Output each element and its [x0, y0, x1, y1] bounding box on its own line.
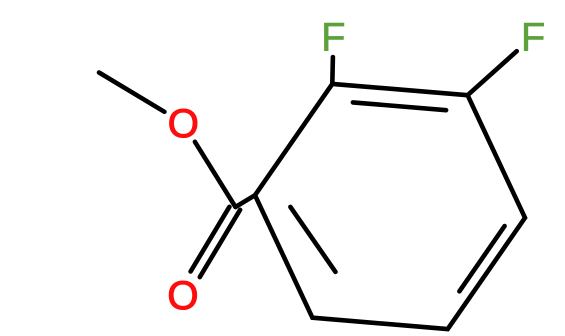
- svg-text:F: F: [521, 16, 545, 60]
- svg-text:F: F: [321, 16, 345, 60]
- svg-text:O: O: [168, 102, 199, 146]
- svg-text:O: O: [167, 274, 198, 318]
